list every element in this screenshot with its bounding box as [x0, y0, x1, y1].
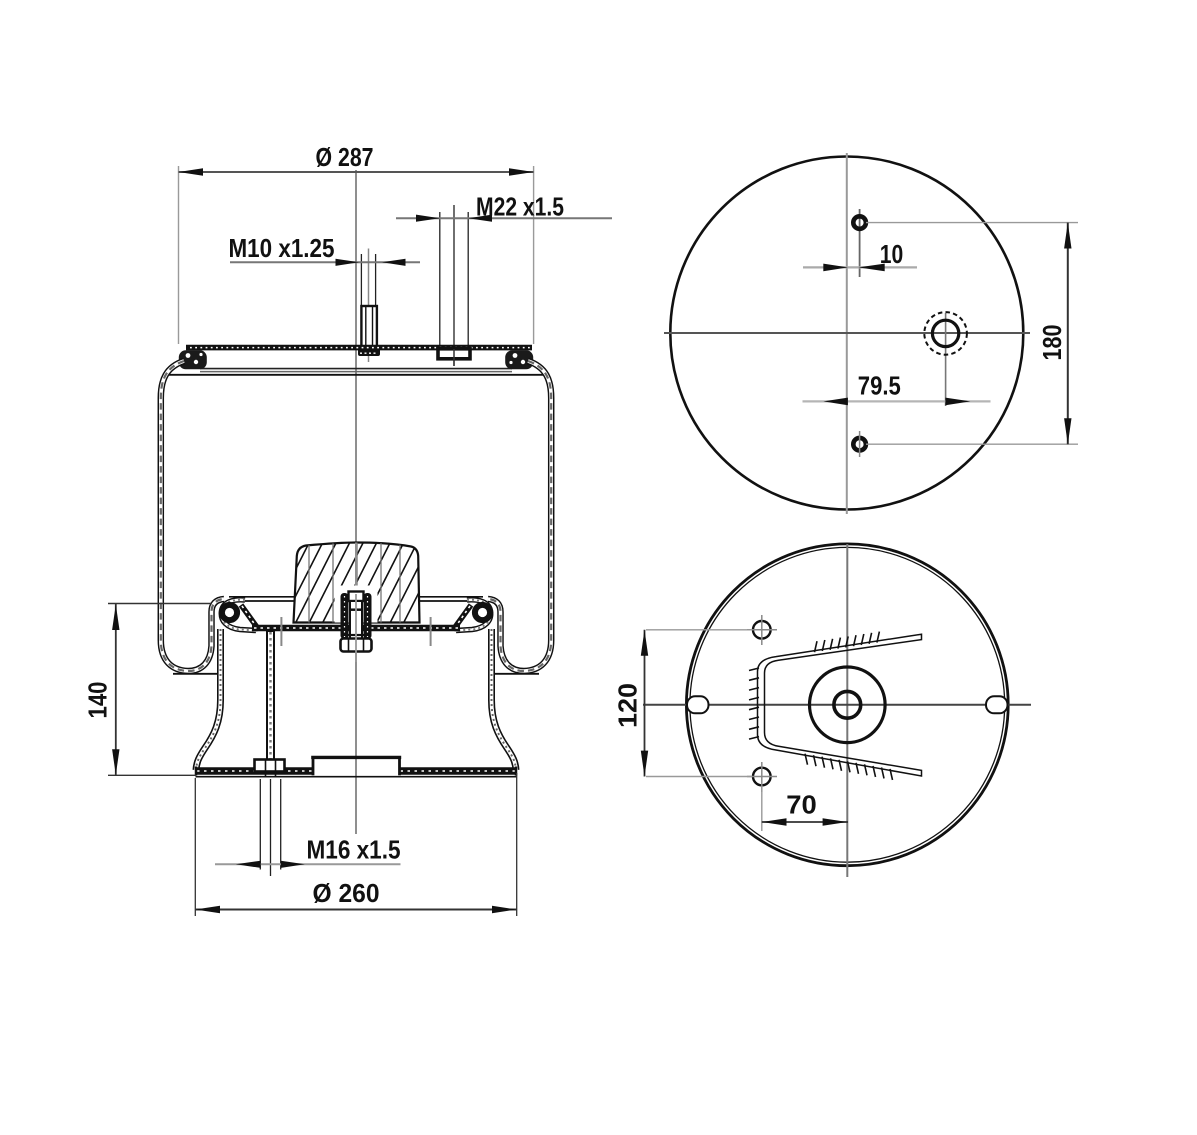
dimension D260 arrow right: [492, 906, 517, 913]
lobe silhouette lines: [173, 673, 218, 675]
dimension 180 extension lines: [866, 222, 1078, 224]
piston wall left: [196, 629, 221, 770]
dimension 70 arrows: [762, 818, 787, 825]
air port stub: [945, 313, 947, 406]
piston curl left dense ring: [222, 605, 237, 620]
M10 stud centerline: [368, 249, 370, 363]
top plate lower line: [200, 368, 512, 370]
rubber bumper: [268, 541, 445, 624]
rim notch left: [687, 696, 709, 713]
center hole: [834, 691, 861, 718]
dimension 140 extension top: [108, 603, 212, 605]
dimension D287 extension line left: [178, 166, 180, 344]
horizontal centerline: [643, 704, 1031, 706]
dimension 140 arrow bottom: [112, 749, 119, 775]
svg-text:Ø 287: Ø 287: [316, 142, 374, 172]
bottom plate lower edge line: [196, 776, 517, 778]
fork hatch left: [749, 668, 759, 739]
dimension 79.5 line: [803, 400, 991, 402]
M22 dimension line: [396, 217, 612, 219]
rim outer circle: [686, 544, 1008, 866]
fork hatch bottom: [805, 754, 893, 780]
M10 arrow left: [336, 259, 360, 266]
dimension 120 line: [644, 630, 646, 777]
fork bracket: [758, 634, 922, 776]
piston plate band: [252, 625, 460, 632]
M16 arrow right: [281, 861, 305, 868]
plate circle: [670, 157, 1023, 510]
top hole: [853, 216, 866, 229]
centerline main: [355, 170, 357, 834]
dimension 140 arrow top: [112, 605, 119, 631]
bolt hole top: [753, 621, 771, 639]
M10 stud base below plate: [358, 348, 380, 356]
center bolt nut: [341, 639, 372, 652]
M22 arrow left: [416, 215, 440, 222]
dimension D287 arrow right: [509, 168, 534, 175]
M10 extension lines: [360, 254, 362, 305]
svg-text:M22 x1.5: M22 x1.5: [476, 192, 564, 222]
M16 extension lines: [259, 779, 261, 870]
dimension 70 line: [762, 821, 848, 823]
bolt centerline: [355, 594, 357, 662]
svg-text:120: 120: [613, 683, 643, 728]
piston wall right: [492, 629, 517, 770]
dimension 140 line: [115, 604, 117, 775]
hole position tick right: [430, 617, 432, 646]
M16 arrow left: [236, 861, 261, 868]
hole position tick left: [280, 617, 282, 646]
rim inner circle: [690, 547, 1005, 862]
bellows top silhouette line: [167, 374, 545, 376]
bead crimp right: [505, 350, 533, 369]
dimension D287 line: [179, 171, 534, 173]
bottom plate end caps: [195, 767, 198, 776]
dimension 10 arrows: [823, 264, 848, 272]
bottom plate band: [196, 767, 314, 775]
center bolt head base: [349, 608, 363, 611]
bellows outer wall left: [161, 361, 224, 671]
M16 washer: [255, 760, 285, 772]
vertical centerline: [846, 153, 848, 514]
inner cup strut: [266, 631, 275, 760]
dimension 70 extension line: [761, 787, 763, 832]
dimension 180 line: [1067, 223, 1069, 445]
svg-text:10: 10: [880, 239, 904, 269]
M10 arrow right: [382, 259, 406, 266]
center circle: [810, 667, 886, 743]
M10 stud: [361, 306, 377, 347]
bead crimp left: [179, 350, 207, 369]
washer line above nut: [348, 634, 364, 636]
M10 dimension line: [230, 261, 420, 263]
dimension D260 line: [195, 909, 516, 911]
air port circles: [924, 312, 967, 355]
dimension D260 extension lines: [194, 778, 196, 916]
piston curl right dense ring: [475, 605, 490, 620]
piston plate slants: [241, 605, 259, 630]
svg-text:79.5: 79.5: [858, 371, 901, 401]
bolt clearance: [335, 586, 378, 623]
bellows outer wall right: [488, 361, 551, 671]
svg-text:70: 70: [786, 790, 817, 820]
dimension 140 extension bottom: [108, 774, 196, 776]
bottom hole: [853, 438, 866, 451]
M22 arrow right: [468, 215, 492, 222]
bottom plate center step: [311, 756, 401, 759]
piston curl left: [221, 600, 256, 631]
top plate: [186, 345, 532, 351]
bolt hole bottom: [753, 768, 771, 786]
svg-text:180: 180: [1037, 325, 1067, 361]
center bolt collar: [341, 593, 349, 639]
piston curl right: [456, 600, 491, 631]
M16 dimension line: [215, 863, 401, 865]
dimension D287 extension line right: [533, 166, 535, 344]
rim notch right: [986, 696, 1008, 713]
dimension 10 line: [803, 266, 917, 268]
dimension D287 arrow left: [179, 168, 204, 175]
center bolt shaft: [350, 601, 362, 639]
vertical centerline: [846, 544, 848, 877]
centerline through bumper: [355, 543, 357, 587]
dimension 180 arrows: [1064, 223, 1071, 249]
dimension 120 arrows: [641, 630, 648, 656]
air fitting M22: [438, 349, 470, 359]
M22 extension lines: [439, 212, 441, 348]
dimension D260 arrow left: [195, 906, 220, 913]
horizontal centerline: [664, 332, 1030, 334]
svg-text:140: 140: [83, 682, 113, 719]
dimension 120 extension lines: [646, 629, 752, 631]
dimension 79.5 arrows: [823, 398, 848, 406]
svg-text:M16 x1.5: M16 x1.5: [307, 835, 401, 865]
center bolt head: [349, 592, 364, 602]
svg-text:Ø 260: Ø 260: [313, 878, 380, 908]
top hole stub: [859, 209, 861, 277]
piston ring top lines: [229, 596, 294, 598]
svg-text:M10 x1.25: M10 x1.25: [229, 233, 335, 263]
fork hatch top: [815, 632, 880, 653]
